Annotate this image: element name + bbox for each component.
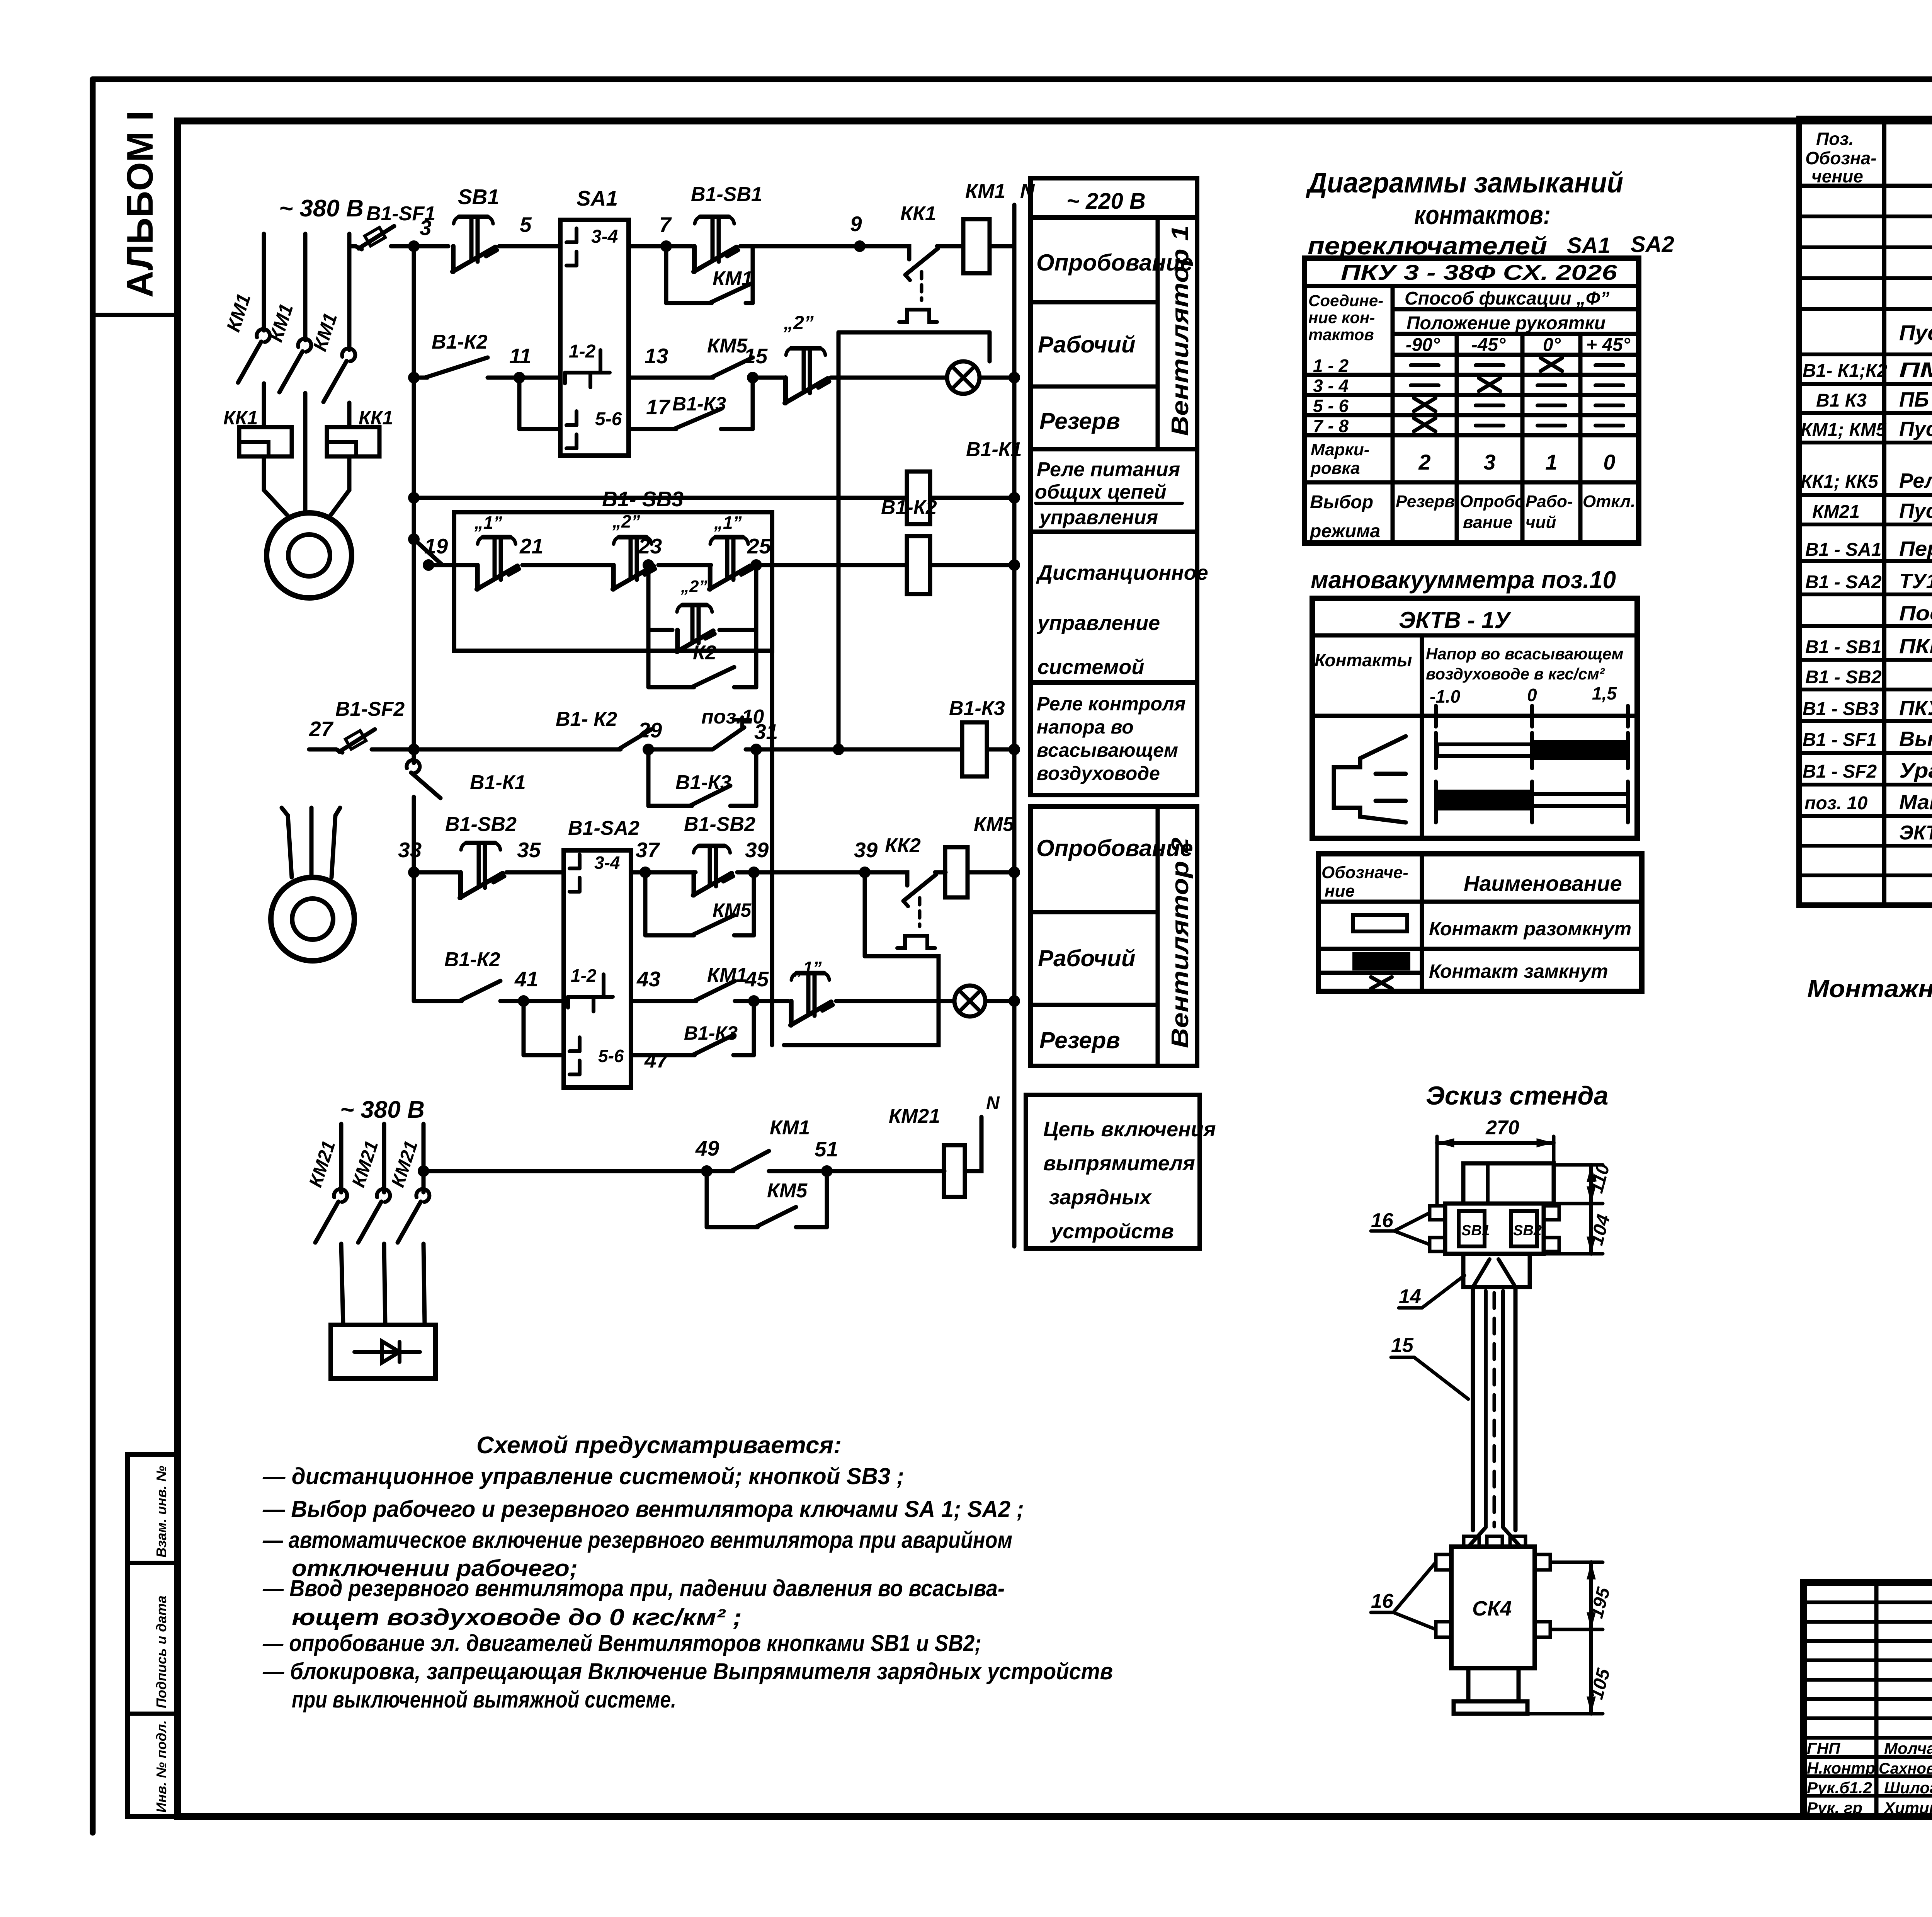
node 51 xyxy=(821,1165,833,1177)
cell rele pitaniya xyxy=(1031,449,1197,532)
svg-text:ПМЕ -083 ОСТ16.0.536.001: ПМЕ -083 ОСТ16.0.536.001 -72 xyxy=(1899,358,1932,381)
svg-text:Урасц 1А; отс. 3 ТУ16 - 5: Урасц 1А; отс. 3 ТУ16 - 522. 140 - 78. xyxy=(1899,759,1932,782)
node bus row5 xyxy=(408,744,420,755)
svg-text:К2: К2 xyxy=(693,642,716,664)
relay coil B1-K1 xyxy=(907,472,930,524)
thermal contact KK2 xyxy=(903,872,907,885)
svg-text:ГНП: ГНП xyxy=(1807,1739,1840,1757)
svg-text:ПКУ 3 - 38Ф СХ. 2026: ПКУ 3 - 38Ф СХ. 2026 xyxy=(1341,260,1617,284)
contact B1-K3 row2 branch xyxy=(653,427,674,431)
svg-text:5 - 6: 5 - 6 xyxy=(1313,396,1349,416)
sketch box SK4 xyxy=(1451,1547,1535,1668)
svg-text:39: 39 xyxy=(745,838,769,862)
svg-text:1: 1 xyxy=(1545,450,1557,474)
svg-text:~ 380 В: ~ 380 В xyxy=(279,195,364,222)
svg-text:+ 45°: + 45° xyxy=(1586,335,1631,355)
relay coil B1-K3 xyxy=(962,722,987,776)
svg-text:КМ5: КМ5 xyxy=(707,335,748,357)
svg-text:выпрямителя: выпрямителя xyxy=(1043,1152,1195,1175)
svg-text:Выбор: Выбор xyxy=(1310,492,1373,512)
sketch dim 105 xyxy=(1527,1712,1603,1716)
svg-text:SВ1: SВ1 xyxy=(1461,1222,1490,1239)
svg-text:КМ1: КМ1 xyxy=(965,180,1005,203)
svg-text:Пускатель магнитный Икат 22: Пускатель магнитный Икат 220В xyxy=(1899,320,1932,345)
svg-text:Пускатель магнитный: Пускатель магнитный xyxy=(1899,499,1932,523)
sketch top bracket xyxy=(1463,1163,1554,1204)
svg-text:КК1; КК5: КК1; КК5 xyxy=(1801,472,1879,492)
svg-text:ние кон-: ние кон- xyxy=(1308,308,1375,327)
svg-text:— автоматическое включение р: — автоматическое включение резервного ве… xyxy=(262,1527,1012,1553)
svg-text:Опробо: Опробо xyxy=(1460,492,1525,511)
sheet outer border left xyxy=(90,79,96,1833)
svg-text:Соедине-: Соедине- xyxy=(1308,291,1383,310)
switch SA1 box xyxy=(560,220,629,456)
svg-text:КМ5: КМ5 xyxy=(767,1180,808,1202)
svg-text:режима: режима xyxy=(1309,521,1380,541)
node 39b xyxy=(859,867,871,878)
contact SA1 3-4 xyxy=(575,228,578,242)
svg-text:Подпись и дата: Подпись и дата xyxy=(153,1595,169,1708)
svg-text:КМ21: КМ21 xyxy=(889,1105,940,1127)
svg-text:Резерв: Резерв xyxy=(1396,492,1455,511)
svg-text:Реле тепловое: Реле тепловое xyxy=(1899,469,1932,492)
contact SA2 5-6 xyxy=(578,1037,582,1051)
wire KM5 coil to N xyxy=(968,870,1014,875)
wire row6 to node 37 xyxy=(631,870,696,875)
sketch dim 195 xyxy=(1550,1561,1603,1564)
pushbutton B1-SB1 xyxy=(666,244,692,249)
signal lamp HL2 xyxy=(954,986,985,1016)
svg-text:В1-SВ1: В1-SВ1 xyxy=(691,183,762,206)
svg-text:9: 9 xyxy=(850,212,862,236)
svg-text:В1-К3: В1-К3 xyxy=(672,393,726,415)
node 49 xyxy=(701,1165,713,1177)
phase line L2 vertical xyxy=(303,234,308,340)
svg-text:3-4: 3-4 xyxy=(594,853,620,873)
svg-text:Дистанционное: Дистанционное xyxy=(1036,561,1208,584)
sketch SK4 top tabs xyxy=(1464,1536,1479,1547)
svg-text:напора во: напора во xyxy=(1037,716,1134,738)
svg-text:В1-К2: В1-К2 xyxy=(444,948,500,971)
svg-text:ТУ16 -526. 047 - 74: ТУ16 -526. 047 - 74 xyxy=(1899,570,1932,593)
svg-text:Способ фиксации „Ф”: Способ фиксации „Ф” xyxy=(1405,288,1609,309)
svg-text:В1 - SВ2: В1 - SВ2 xyxy=(1805,667,1882,688)
node 31 xyxy=(750,744,762,755)
svg-text:1-2: 1-2 xyxy=(571,965,597,986)
svg-text:19: 19 xyxy=(424,534,448,558)
node 45 xyxy=(748,995,760,1007)
svg-text:45: 45 xyxy=(745,967,769,991)
motor M1 xyxy=(267,513,352,598)
svg-text:КМ5: КМ5 xyxy=(713,899,752,921)
svg-text:270: 270 xyxy=(1485,1117,1519,1139)
pushbutton '1' row4 xyxy=(475,565,480,589)
wire row2 SA1 to node 13 xyxy=(629,376,657,380)
node 23 xyxy=(643,559,654,571)
svg-text:КМ1: КМ1 xyxy=(770,1117,810,1139)
svg-text:контактов:: контактов: xyxy=(1414,200,1551,230)
svg-text:Шилогин: Шилогин xyxy=(1884,1779,1932,1797)
wire to node 39 xyxy=(737,870,903,875)
lamp bypass routing wire xyxy=(838,330,990,335)
svg-text:3-4: 3-4 xyxy=(591,226,618,247)
svg-text:вание: вание xyxy=(1463,513,1512,532)
button box B1-SB3 xyxy=(454,512,772,651)
sketch dim 270 xyxy=(1437,1141,1554,1145)
svg-text:-1.0: -1.0 xyxy=(1430,686,1461,707)
svg-text:Инв. № подл.: Инв. № подл. xyxy=(153,1720,169,1813)
wire to node 21 xyxy=(522,563,614,567)
node 39a xyxy=(748,867,760,878)
wire row6 start xyxy=(414,870,458,875)
contactor coil KM1 xyxy=(963,219,990,273)
svg-text:В1 - SА2: В1 - SА2 xyxy=(1805,572,1882,592)
svg-text:15: 15 xyxy=(744,344,768,368)
svg-text:КМ1: КМ1 xyxy=(707,964,747,986)
svg-text:Рук. гр: Рук. гр xyxy=(1807,1799,1862,1817)
branch 11 to 5-6 xyxy=(517,378,522,429)
pushbutton '1' NC row4 xyxy=(708,565,713,589)
wire rele pitaniya row xyxy=(414,496,906,500)
phase line KM21-1 xyxy=(339,1124,344,1192)
wire KM21 coil to N terminal xyxy=(965,1117,981,1171)
svg-text:КК1: КК1 xyxy=(900,203,936,225)
svg-text:Контакт разомкнут: Контакт разомкнут xyxy=(1429,918,1631,940)
svg-text:КМ5: КМ5 xyxy=(974,813,1014,836)
svg-text:0°: 0° xyxy=(1543,335,1561,355)
sketch button SB1 xyxy=(1459,1211,1485,1246)
node 41 xyxy=(518,995,529,1007)
svg-text:мановакуумметра поз.10: мановакуумметра поз.10 xyxy=(1311,566,1616,594)
contact B1-K2 row7 from bus xyxy=(412,984,416,1001)
self-hold contact KM5 row49 xyxy=(705,1171,709,1227)
svg-text:14: 14 xyxy=(1399,1285,1421,1308)
svg-text:— опробование эл. двигателе: — опробование эл. двигателей Вентиляторо… xyxy=(262,1630,981,1656)
contact B1-K2 row2 xyxy=(414,376,425,380)
svg-text:чий: чий xyxy=(1526,513,1556,532)
svg-text:КМ1: КМ1 xyxy=(713,267,753,290)
svg-text:Обозначе-: Обозначе- xyxy=(1321,863,1408,882)
svg-text:Сахновская: Сахновская xyxy=(1879,1760,1932,1777)
wire to node 35 xyxy=(507,870,564,875)
svg-text:2: 2 xyxy=(1418,450,1430,474)
svg-text:В1 - SF1: В1 - SF1 xyxy=(1803,730,1877,750)
svg-text:31: 31 xyxy=(754,720,778,744)
svg-text:Напор во всасывающем: Напор во всасывающем xyxy=(1426,645,1623,663)
sketch pedestal xyxy=(1468,1668,1519,1701)
svg-text:В1-К2: В1-К2 xyxy=(432,331,488,353)
svg-text:Рабочий: Рабочий xyxy=(1038,945,1135,971)
pressure contact poz.10 xyxy=(651,747,707,752)
cell distancionnoe upravlenie xyxy=(1031,532,1197,683)
svg-text:Монтажные материалы для: Монтажные материалы для стенда с м. АСТ … xyxy=(1807,975,1932,1003)
svg-text:В1-SА2: В1-SА2 xyxy=(568,817,639,839)
wire row7 to SA2 xyxy=(524,999,564,1003)
svg-text:0: 0 xyxy=(1527,685,1537,705)
svg-text:управление: управление xyxy=(1036,611,1160,635)
svg-text:3 - 4: 3 - 4 xyxy=(1313,376,1349,396)
contactor KM1 pole 1 xyxy=(257,329,270,342)
svg-text:35: 35 xyxy=(517,838,541,862)
branch 23-25 pushbutton '2' NC loop xyxy=(646,565,651,630)
contactor KM1 pole 2 xyxy=(298,339,311,352)
contact KM1 row7 xyxy=(657,999,694,1003)
svg-text:ПКЕ - 222 - 2У2 ТУ16 -: ПКЕ - 222 - 2У2 ТУ16 - 6У2. 006 - 83 xyxy=(1899,635,1932,658)
parts table row lines xyxy=(1799,215,1932,218)
svg-text:Контакты: Контакты xyxy=(1315,650,1412,670)
node 7 xyxy=(660,240,672,252)
svg-text:SВ2: SВ2 xyxy=(1513,1222,1542,1239)
svg-text:воздуховоде: воздуховоде xyxy=(1037,763,1160,784)
cell rele kontrolya xyxy=(1031,683,1197,795)
node 25 xyxy=(754,563,906,567)
svg-text:воздуховоде в кгс/см²: воздуховоде в кгс/см² xyxy=(1426,665,1605,683)
svg-text:Н.контр: Н.контр xyxy=(1807,1759,1875,1777)
svg-text:5: 5 xyxy=(520,213,532,237)
motor M1 leads xyxy=(264,479,289,517)
svg-text:тактов: тактов xyxy=(1308,325,1374,344)
svg-text:В1 К3: В1 К3 xyxy=(1816,390,1867,411)
svg-text:1 - 2: 1 - 2 xyxy=(1313,356,1349,376)
svg-text:25: 25 xyxy=(747,534,772,558)
phase line L1 vertical xyxy=(262,234,266,330)
svg-text:Контакт замкнут: Контакт замкнут xyxy=(1429,960,1608,982)
sketch SK4 side tabs xyxy=(1436,1554,1451,1570)
contactor coil KM5 xyxy=(945,847,968,897)
svg-text:Положение рукоятки: Положение рукоятки xyxy=(1406,313,1605,334)
svg-text:16: 16 xyxy=(1371,1209,1394,1232)
neutral line N xyxy=(1012,205,1017,1246)
wire K2 coil to N xyxy=(930,563,1014,567)
rectifier box xyxy=(331,1325,435,1379)
node 33 xyxy=(408,867,420,878)
routing vertical from SB3 box to lamp loop xyxy=(770,651,774,1045)
svg-text:Взам. инв. №: Взам. инв. № xyxy=(153,1466,169,1558)
parts table frame xyxy=(1799,119,1932,905)
svg-text:ровка: ровка xyxy=(1310,459,1360,478)
wire row1 SB1 to SA1 xyxy=(499,244,560,249)
svg-text:зарядных: зарядных xyxy=(1049,1186,1152,1209)
svg-text:В1- К2: В1- К2 xyxy=(556,708,617,730)
branch 29-31 contact B1-K3 NC xyxy=(646,749,651,806)
svg-text:В1-SF2: В1-SF2 xyxy=(335,698,405,720)
phase line L3 vertical xyxy=(347,234,352,350)
svg-text:КК1: КК1 xyxy=(223,407,258,429)
svg-text:КК2: КК2 xyxy=(885,834,921,857)
svg-text:ющет воздуховоде до: ющет воздуховоде до 0 кгс/км² ; xyxy=(292,1604,742,1630)
svg-text:СК4: СК4 xyxy=(1472,1597,1512,1620)
svg-text:N: N xyxy=(986,1093,1000,1113)
svg-text:КК1: КК1 xyxy=(359,407,393,429)
rectifier diode symbol xyxy=(354,1350,420,1354)
svg-text:системой: системой xyxy=(1037,655,1144,679)
legend table frame xyxy=(1318,854,1642,991)
svg-text:Поз.: Поз. xyxy=(1816,129,1854,149)
pushbutton B1-SB2 second xyxy=(692,872,696,895)
svg-text:ЭКТВ - 1У: ЭКТВ - 1У xyxy=(1399,607,1512,633)
pushbutton SB1 xyxy=(451,246,456,272)
self-hold loop contact KM5 row6 xyxy=(643,872,648,935)
svg-text:23: 23 xyxy=(638,534,662,558)
svg-text:В1 - SА1: В1 - SА1 xyxy=(1805,540,1881,560)
svg-text:чение: чение xyxy=(1811,166,1863,186)
svg-text:АЛЬБОМ I: АЛЬБОМ I xyxy=(119,111,161,298)
svg-text:КМ21: КМ21 xyxy=(1812,502,1860,522)
wire row4 start xyxy=(429,563,478,567)
cell cep vklyucheniya xyxy=(1026,1095,1200,1248)
svg-text:Пускатель магнитный: Пускатель магнитный xyxy=(1899,417,1932,441)
svg-text:Марки-: Марки- xyxy=(1311,440,1369,459)
svg-text:Обозна-: Обозна- xyxy=(1805,148,1877,168)
svg-text:Рук.б1.2: Рук.б1.2 xyxy=(1807,1779,1872,1797)
svg-text:5-6: 5-6 xyxy=(595,409,622,429)
EKTV kontakty col xyxy=(1420,635,1424,838)
wire row5 to contact B1-K2 xyxy=(414,747,618,752)
svg-text:17: 17 xyxy=(646,395,671,419)
contact KM1 row49 xyxy=(731,1169,733,1173)
wire lamp HL2 to N xyxy=(985,999,1014,1003)
EKTV contact symbol xyxy=(1334,736,1406,822)
wire row1 B1-SB1 to node 9 xyxy=(740,244,904,249)
contact B1-K1 on bus lower xyxy=(406,760,420,773)
svg-text:общих цепей: общих цепей xyxy=(1035,481,1167,503)
sketch dim 110 xyxy=(1554,1163,1603,1167)
svg-text:ПБ -121: ПБ -121 xyxy=(1899,388,1932,411)
svg-text:В1-К3: В1-К3 xyxy=(949,697,1005,720)
node bus rele row xyxy=(408,492,420,504)
svg-text:39: 39 xyxy=(854,838,878,862)
svg-text:11: 11 xyxy=(509,344,531,368)
svg-text:В1-К3: В1-К3 xyxy=(675,771,731,794)
EKTV scale ticks xyxy=(1434,706,1438,727)
svg-text:7 - 8: 7 - 8 xyxy=(1313,416,1349,436)
svg-text:„1”: „1” xyxy=(714,512,742,533)
svg-text:управления: управления xyxy=(1038,506,1158,529)
sheet outer border top xyxy=(93,77,1932,82)
svg-text:1-2: 1-2 xyxy=(569,341,596,362)
svg-text:Рабо-: Рабо- xyxy=(1526,492,1573,511)
thermal contact KK1 xyxy=(905,246,909,259)
phase line KM21-2 xyxy=(382,1124,386,1192)
circuit breaker B1-SF1 xyxy=(355,246,362,249)
signal lamp HL1 xyxy=(947,361,980,394)
function column box 220V xyxy=(1031,178,1197,218)
svg-text:— блокировка, запрещающая Вклю: — блокировка, запрещающая Включение Выпр… xyxy=(262,1658,1113,1684)
svg-text:Схемой предусматривается:: Схемой предусматривается: xyxy=(476,1432,842,1459)
svg-text:SА2: SА2 xyxy=(1631,232,1674,257)
svg-text:1,5: 1,5 xyxy=(1592,683,1617,703)
svg-text:47: 47 xyxy=(644,1048,669,1072)
node 15 xyxy=(747,372,759,383)
svg-text:Выключатель АК63 - 1м У3 ;: Выключатель АК63 - 1м У3 ; и 500В xyxy=(1899,727,1932,751)
sketch pole xyxy=(1471,1287,1475,1530)
svg-text:Реле контроля: Реле контроля xyxy=(1037,693,1185,715)
node 19 contact B1-K1 from bus xyxy=(414,539,442,565)
contact SA1 1-2 xyxy=(565,371,610,375)
thermal relay KK1 heater phase1 xyxy=(239,427,292,456)
legend closed contact row xyxy=(1354,954,1408,969)
svg-text:3: 3 xyxy=(420,216,432,240)
branch 23-25 contact K2 loop xyxy=(646,630,651,687)
svg-text:-90°: -90° xyxy=(1406,335,1440,355)
terminal 27 and breaker B1-SF2 xyxy=(309,747,336,752)
wire row7 SA2 to node 43 xyxy=(631,999,657,1003)
main title block frame xyxy=(1804,1583,1932,1817)
pushbutton B1-SB2 row6 xyxy=(458,872,463,898)
svg-text:7: 7 xyxy=(659,213,672,237)
node 11 xyxy=(514,372,525,383)
svg-text:Эскиз стенда: Эскиз стенда xyxy=(1426,1081,1608,1110)
node 3 xyxy=(408,240,420,252)
wire row1 node3 to SB1 xyxy=(414,244,448,249)
svg-text:Диаграммы замыканий: Диаграммы замыканий xyxy=(1305,167,1623,199)
routing loop near lamp HL2 xyxy=(784,956,939,1045)
svg-text:— Ввод резервного вентилятор: — Ввод резервного вентилятора при, паден… xyxy=(262,1575,1005,1601)
contactor KM1 pole 3 xyxy=(342,348,355,361)
function column ventilator2 group xyxy=(1031,807,1197,1066)
svg-text:В1 - SF2: В1 - SF2 xyxy=(1803,761,1877,782)
svg-text:устройств: устройств xyxy=(1050,1220,1174,1243)
motor M2 xyxy=(271,877,354,961)
contact B1-K3 row7 branch xyxy=(657,1053,692,1057)
node 37 xyxy=(639,867,651,878)
svg-text:В1 - SВ3: В1 - SВ3 xyxy=(1803,699,1879,719)
svg-text:3: 3 xyxy=(1483,450,1495,474)
svg-text:Резерв: Резерв xyxy=(1039,1027,1120,1053)
svg-text:Наименование: Наименование xyxy=(1464,871,1622,896)
sketch button SB2 xyxy=(1511,1211,1537,1246)
svg-text:поз. 10: поз. 10 xyxy=(1804,793,1868,814)
pushbutton '2' row4 xyxy=(611,565,616,589)
svg-text:SА1: SА1 xyxy=(577,186,618,210)
sketch plate tabs xyxy=(1430,1206,1445,1220)
svg-text:21: 21 xyxy=(519,534,543,558)
svg-text:Молчанов: Молчанов xyxy=(1884,1739,1932,1757)
control bus vertical xyxy=(412,246,416,763)
svg-text:Резерв: Резерв xyxy=(1039,408,1120,434)
svg-text:Цепь включения: Цепь включения xyxy=(1043,1118,1216,1141)
wire to node 23 xyxy=(658,563,711,567)
album label box divider xyxy=(93,313,177,317)
svg-text:Переключатель ПКУ3 - 38Ф сх: Переключатель ПКУ3 - 38Ф схема 2026 xyxy=(1899,537,1932,560)
function column ventilator1 group xyxy=(1031,218,1197,449)
svg-text:49: 49 xyxy=(695,1136,719,1160)
svg-text:В1-К3: В1-К3 xyxy=(684,1022,738,1044)
svg-text:В1-SВ2: В1-SВ2 xyxy=(684,813,755,836)
sketch neck trapezoid xyxy=(1463,1254,1530,1287)
EKTV bar closed-open row2 xyxy=(1434,781,1438,822)
EKTV table frame xyxy=(1312,598,1637,838)
node bus row2 xyxy=(408,372,420,383)
contactor coil KM21 xyxy=(827,1169,944,1173)
svg-text:В1- К1;К2: В1- К1;К2 xyxy=(1803,361,1887,381)
svg-text:при выключенной вытяжной: при выключенной вытяжной системе. xyxy=(292,1687,676,1713)
svg-text:КМ1; КМ5: КМ1; КМ5 xyxy=(1801,420,1887,440)
long routing vertical to row5 xyxy=(837,332,841,749)
svg-text:В1-К1: В1-К1 xyxy=(966,438,1022,461)
PKU col soedinenie kontaktov xyxy=(1391,286,1395,543)
svg-text:всасывающем: всасывающем xyxy=(1037,739,1178,761)
svg-text:5-6: 5-6 xyxy=(598,1046,624,1066)
motor M2 leads xyxy=(282,808,292,877)
PKU table frame xyxy=(1304,258,1639,543)
svg-text:~ 220 В: ~ 220 В xyxy=(1066,189,1146,214)
svg-text:51: 51 xyxy=(815,1137,838,1161)
svg-text:В1-К1: В1-К1 xyxy=(470,771,526,794)
switch SA2 box xyxy=(564,850,631,1088)
wire lamp to N xyxy=(980,376,1014,380)
svg-text:Мановакуумметр электроконтакт: Мановакуумметр электроконтактный. xyxy=(1899,791,1932,814)
